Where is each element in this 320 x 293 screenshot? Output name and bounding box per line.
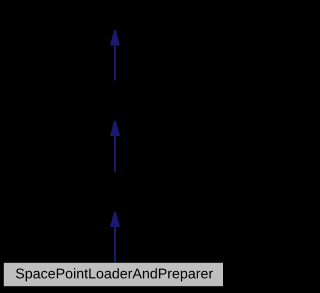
node box 2: intermediate base class (black on black, invisible)	[36, 81, 194, 120]
node box 1: top base class (black on black, invisible)	[36, 0, 194, 30]
inheritance arrow 1 (edge to top base class)	[110, 30, 120, 81]
inheritance arrow 3 (edge from SpacePointLoaderAndPreparer)	[110, 212, 120, 263]
node box SpacePointLoaderAndPreparer (current class, grey fill)	[4, 263, 223, 286]
node box 3: intermediate base class (black on black, invisible)	[36, 172, 194, 212]
label SpacePointLoaderAndPreparer (text as outlines)	[16, 268, 213, 281]
inheritance arrow 2 (edge to intermediate base class)	[110, 121, 120, 172]
